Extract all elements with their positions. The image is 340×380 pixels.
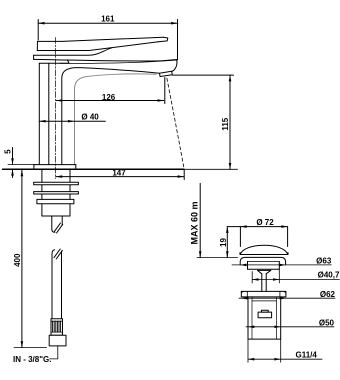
svg-text:19: 19 (219, 238, 228, 247)
hose fitting hatched (51, 319, 63, 336)
dimension diameter 40 (39, 113, 105, 123)
spout underside inner (light) (75, 74, 157, 165)
svg-text:MAX 60 m: MAX 60 m (190, 201, 200, 244)
faucet handle (37, 37, 168, 50)
svg-text:Ø 72: Ø 72 (256, 218, 274, 227)
svg-text:400: 400 (13, 253, 22, 267)
svg-text:Ø62: Ø62 (320, 290, 336, 299)
dimension diameter 50 (246, 319, 335, 329)
spout underside outer (62, 68, 160, 165)
drain washer plate (241, 291, 286, 297)
IN label and leader (13, 346, 58, 364)
deck line (3, 168, 185, 170)
shank below deck (42, 169, 70, 216)
dimension diameter 62 (239, 290, 336, 300)
svg-text:G11/4: G11/4 (296, 350, 318, 359)
svg-text:5: 5 (4, 149, 13, 154)
dimension 19 (219, 227, 229, 258)
centerline (55, 38, 57, 179)
svg-text:147: 147 (112, 168, 126, 177)
drain stem (262, 274, 266, 291)
hose end block (49, 335, 66, 346)
spout top edge (34, 59, 177, 61)
svg-text:161: 161 (101, 15, 115, 24)
dimension 5 (4, 148, 37, 178)
base plate (34, 165, 76, 170)
faucet cap top (34, 48, 112, 56)
dimension 147 (56, 168, 184, 179)
spout end face (172, 60, 177, 72)
dimension 161 (38, 15, 178, 60)
nut (37, 199, 74, 203)
faucet head left face (33, 55, 35, 59)
svg-text:Ø50: Ø50 (319, 319, 335, 328)
aerator (159, 71, 172, 76)
svg-text:Ø40,7: Ø40,7 (318, 271, 340, 280)
svg-text:126: 126 (102, 93, 116, 102)
column left edge (38, 63, 40, 164)
hose lower piece (52, 249, 62, 319)
drain stem cone (258, 270, 271, 273)
dimension G1 1/4 (248, 339, 322, 362)
deck extension thin (184, 168, 238, 170)
drain overflow hole (258, 310, 272, 318)
dimension diameter 63 (232, 256, 332, 266)
svg-text:115: 115 (221, 117, 230, 130)
drain flange ring (240, 257, 285, 269)
washer 2 (34, 192, 79, 194)
dimension 400 (13, 170, 47, 348)
drain cap dome (240, 245, 288, 254)
svg-text:Ø 40: Ø 40 (81, 113, 99, 122)
washer 1 (34, 182, 79, 184)
shank block bottom (42, 215, 70, 217)
dashed water stream (167, 78, 184, 168)
dimension diameter 72 (227, 218, 287, 246)
spout top inner edge (60, 60, 176, 63)
dimension 115 (173, 75, 234, 169)
svg-text:Ø63: Ø63 (316, 256, 332, 265)
svg-text:IN - 3/8"G.: IN - 3/8"G. (13, 355, 51, 364)
dimension MAX 60 m (190, 183, 238, 257)
dimension diameter 40,7 (252, 269, 340, 283)
dimension 126 (56, 78, 165, 104)
cap bottom line (39, 60, 69, 63)
column inner line (48, 63, 50, 164)
drain body (248, 297, 281, 339)
hose upper piece (52, 216, 63, 233)
